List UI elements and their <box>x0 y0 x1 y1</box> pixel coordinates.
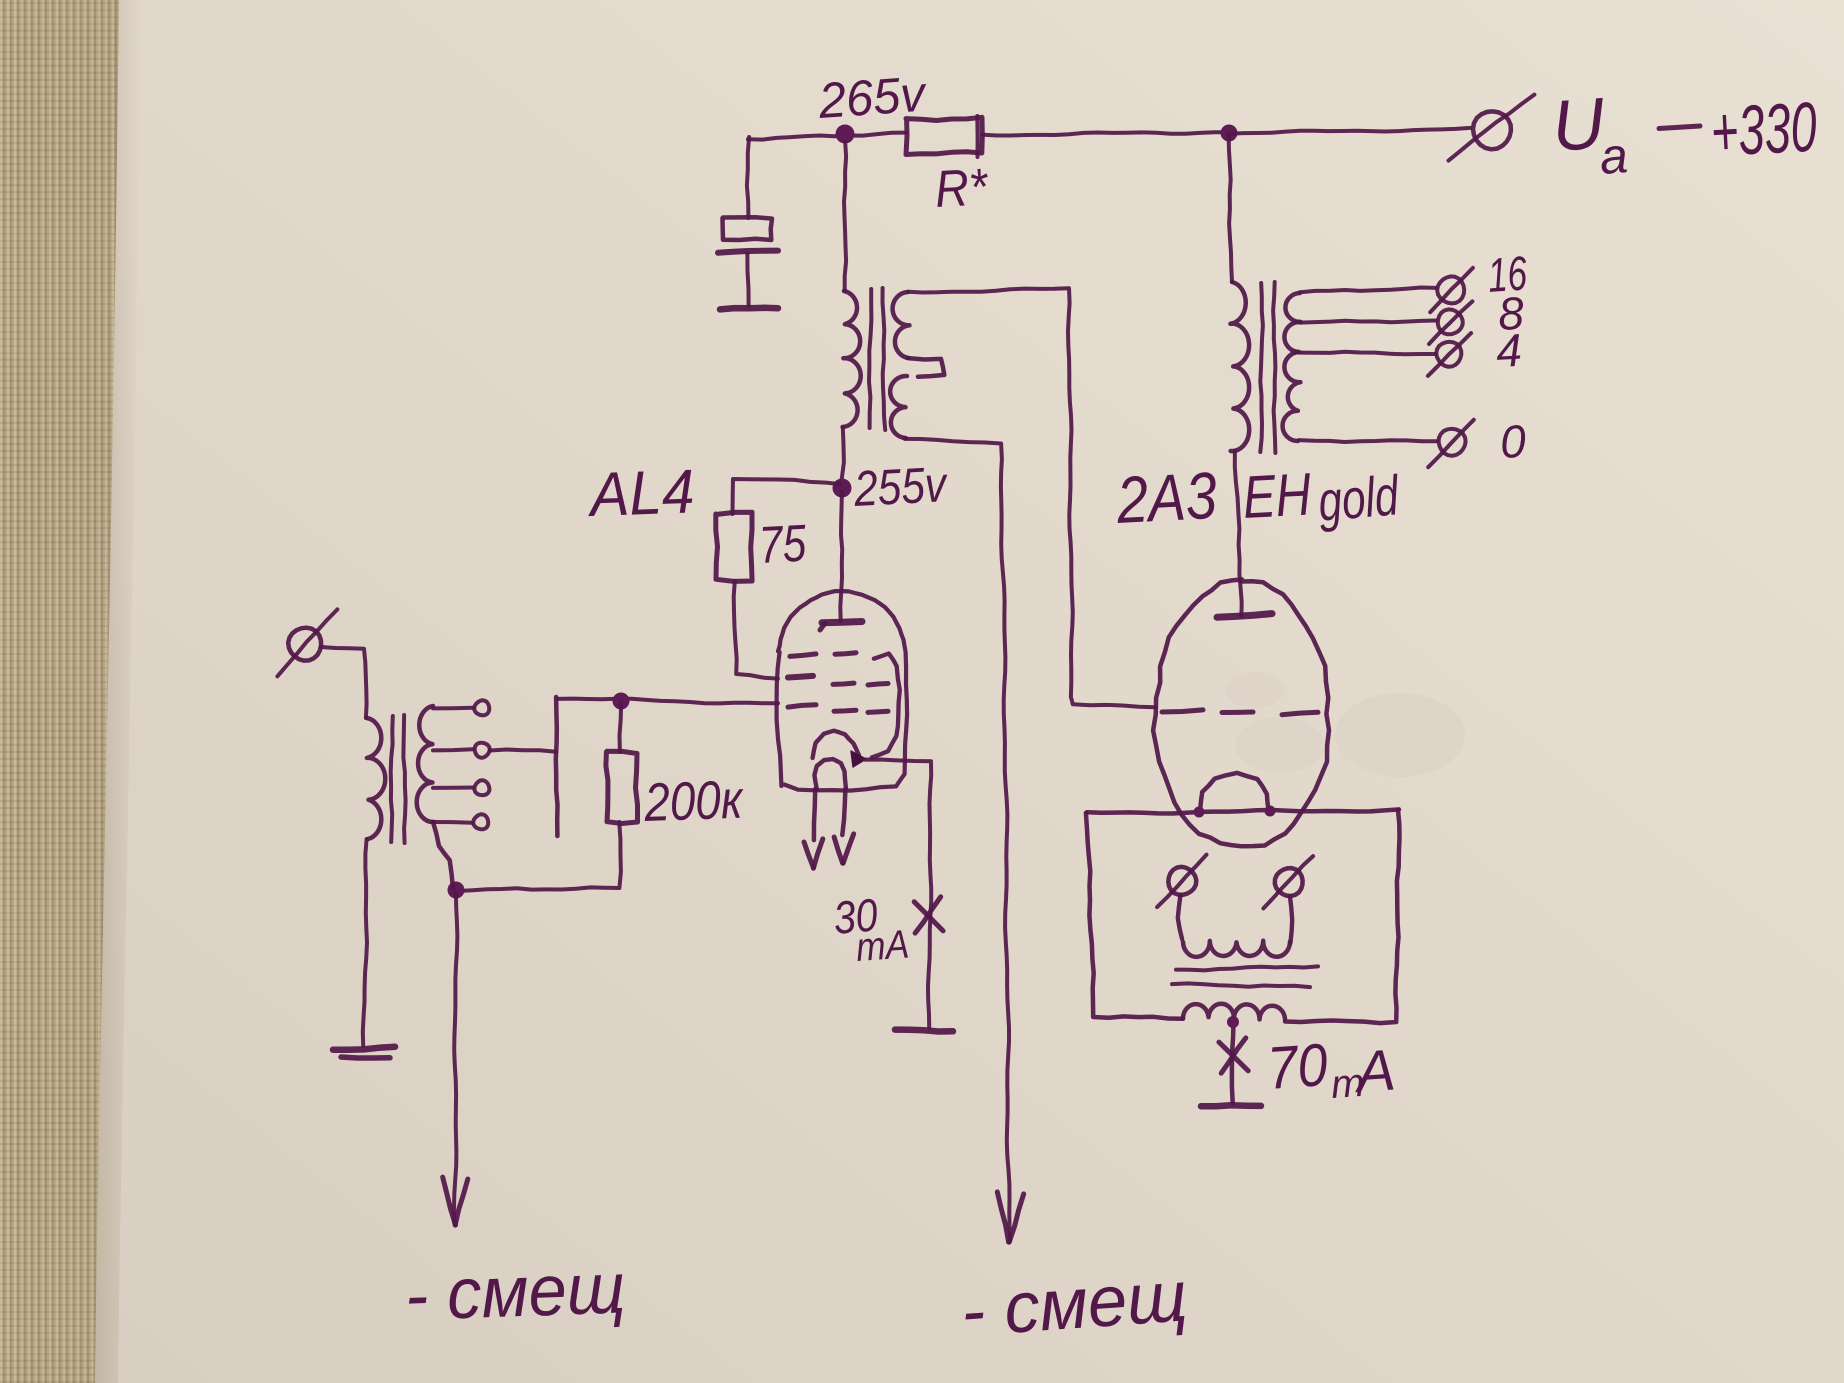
input terminal (circle with slash) <box>277 609 337 676</box>
filament transformer secondary <box>1183 1004 1285 1020</box>
filament secondary center tap <box>1232 1020 1234 1103</box>
terminal 8 <box>1429 301 1472 344</box>
label -смещ (left) <box>404 1248 627 1336</box>
wire: 265v node to R* left lead <box>748 133 906 140</box>
wire: 200K top lead <box>620 703 622 752</box>
label 70 <box>1265 1031 1330 1102</box>
label +330 <box>1709 88 1819 171</box>
T2 tap circle 4 <box>473 814 488 829</box>
transformer T1 primary winding <box>843 291 861 427</box>
wire: AL4 filament right lead <box>842 789 845 835</box>
wire: T3 primary to 2A3 anode <box>1235 451 1242 616</box>
svg-text:R*: R* <box>934 158 991 219</box>
terminal 4 <box>1428 333 1471 376</box>
tube AL4 envelope <box>777 591 908 791</box>
label dash <box>1659 126 1700 129</box>
wire: T1 secondary top to 2A3 grid <box>908 288 1155 707</box>
wire: input terminal to T2 primary <box>321 647 367 718</box>
tube AL4 grid g1 dashes <box>788 705 888 713</box>
tube 2A3 anode plate <box>1217 614 1272 618</box>
T2 tap circle 1 <box>474 700 489 715</box>
node 265v <box>836 125 855 144</box>
label AL4 <box>585 457 695 530</box>
label 2A3 <box>1114 458 1219 537</box>
cathode return terminal bar <box>895 1030 953 1032</box>
wire: terminal A lead <box>1178 895 1182 939</box>
label 16 <box>1486 247 1529 303</box>
filament arrow left <box>804 839 823 868</box>
svg-text:+330: +330 <box>1709 88 1819 171</box>
junction dots filament <box>1194 806 1276 818</box>
svg-text:a: a <box>1598 127 1630 185</box>
wire: 255v node down to AL4 anode <box>840 492 842 621</box>
wire: bias to arrow (left) <box>454 893 457 1223</box>
tube AL4 grid g2 dashes <box>788 676 888 685</box>
label 255v <box>852 456 950 517</box>
paper edge shading <box>95 0 141 1383</box>
tube AL4 filament <box>814 759 846 789</box>
capacitor C1 (electrolytic, + plate box) <box>718 217 778 309</box>
label 4 <box>1495 324 1523 377</box>
svg-text:75: 75 <box>758 515 809 575</box>
wire: 200K bottom lead <box>458 822 621 891</box>
wire: 265v node to capacitor C1 <box>747 137 749 218</box>
node: +330 rail at output transformer <box>1221 125 1238 142</box>
node: AL4 grid / 200K <box>613 693 630 710</box>
bias arrow (right) <box>997 1192 1023 1242</box>
paper smudges <box>1335 693 1465 777</box>
ground <box>333 1047 395 1058</box>
svg-text:mA: mA <box>855 922 911 970</box>
transformer T3 core <box>1260 282 1275 453</box>
tube 2A3 grid dashes <box>1162 710 1318 715</box>
node: bias rail left <box>448 882 465 899</box>
label 0 <box>1499 415 1528 468</box>
tube AL4 grid g3 dashes <box>790 653 856 657</box>
svg-text:255v: 255v <box>852 456 950 517</box>
label A <box>1351 1037 1397 1105</box>
filament transformer core <box>1172 966 1318 987</box>
tube AL4 cathode <box>813 731 859 758</box>
cathode junction arrowhead <box>851 751 866 767</box>
T2 secondary tap wires <box>433 708 473 823</box>
terminal 0 <box>1428 420 1474 467</box>
wire: AL4 cathode to 30mA point <box>864 760 931 1029</box>
wire: 265v node down to T1 primary <box>844 142 846 291</box>
resistor 200K <box>606 751 638 823</box>
transformer T2 core <box>391 715 406 843</box>
wire: T3 tap 16 <box>1300 288 1436 293</box>
terminal Ua (circle with slash) <box>1449 95 1535 161</box>
wire: T3 tap 4 <box>1300 352 1435 355</box>
wire: +330 node down to T3 primary <box>1229 136 1232 282</box>
svg-text:4: 4 <box>1495 324 1523 377</box>
wire: tap selector to AL4 control grid <box>558 699 778 704</box>
label R* <box>934 158 991 219</box>
wire: R* to output transformer top node <box>982 132 1229 135</box>
filament transformer primary <box>1183 941 1290 957</box>
svg-text:- смещ: - смещ <box>959 1256 1190 1352</box>
label 8 <box>1497 287 1526 340</box>
label 265v <box>816 66 930 130</box>
transformer T1 core <box>869 288 885 430</box>
wire: T3 tap 8 <box>1300 321 1436 323</box>
label 200K <box>642 770 745 833</box>
transformer T3 primary winding <box>1231 282 1250 451</box>
bias arrow (left) <box>443 1177 468 1225</box>
measurement point X 30mA <box>914 897 943 933</box>
tube 2A3 filament <box>1200 773 1269 812</box>
transformer T2 secondary winding <box>417 706 453 888</box>
wire: T3 tap 0 <box>1299 440 1437 442</box>
label -смещ (right) <box>959 1256 1190 1352</box>
selector bar <box>556 697 558 836</box>
wire: T1 primary to 255v node <box>842 427 844 480</box>
tube AL4 beam plate curve <box>872 654 900 758</box>
transformer T2 primary winding <box>367 718 385 839</box>
filament transformer terminal B (circle with slash) <box>1263 856 1313 908</box>
label EH gold <box>1241 460 1402 532</box>
filament arrow right <box>834 834 854 863</box>
label Ua <box>1550 83 1630 185</box>
svg-text:AL4: AL4 <box>585 457 695 530</box>
resistor 75 <box>716 512 752 581</box>
svg-text:- смещ: - смещ <box>404 1248 627 1336</box>
filament supply loop <box>1086 809 1400 1023</box>
svg-text:70: 70 <box>1265 1031 1330 1102</box>
transformer T1 secondary winding <box>890 292 944 438</box>
svg-text:gold: gold <box>1316 463 1403 533</box>
svg-text:0: 0 <box>1499 415 1528 468</box>
filament transformer terminal A (circle with slash) <box>1157 855 1206 908</box>
transformer T3 secondary winding <box>1283 293 1301 441</box>
svg-text:200к: 200к <box>642 770 745 833</box>
label mA <box>855 922 911 970</box>
wire: 255v node to resistor 75 <box>733 479 841 514</box>
label m <box>1330 1061 1366 1107</box>
wire: node to Ua terminal <box>1229 128 1470 134</box>
tube 2A3 envelope <box>1153 579 1329 846</box>
resistor R* <box>906 116 982 157</box>
wire: T2 primary to ground <box>363 839 367 1046</box>
T2 tap circle 3 <box>475 780 490 795</box>
wire: tap 2 to selector bar <box>490 750 556 752</box>
svg-text:2A3: 2A3 <box>1114 458 1219 537</box>
label 75 <box>758 515 809 575</box>
wire: resistor 75 to AL4 screen grid <box>734 581 778 679</box>
wire: AL4 filament left lead <box>814 789 815 840</box>
svg-text:EH: EH <box>1241 460 1313 530</box>
wire: T1 secondary bottom to bias <box>905 439 1010 1241</box>
node center tap <box>1227 1016 1239 1028</box>
terminal 16 <box>1430 268 1473 312</box>
wire: terminal B lead <box>1290 896 1292 943</box>
T2 tap circle 2 <box>475 743 490 758</box>
label 30 <box>831 888 880 944</box>
measurement point X 70mA <box>1219 1038 1248 1073</box>
center tap terminal bar <box>1201 1105 1261 1106</box>
tube AL4 anode plate <box>820 622 862 631</box>
node 255v <box>833 479 852 498</box>
svg-text:A: A <box>1351 1037 1397 1105</box>
